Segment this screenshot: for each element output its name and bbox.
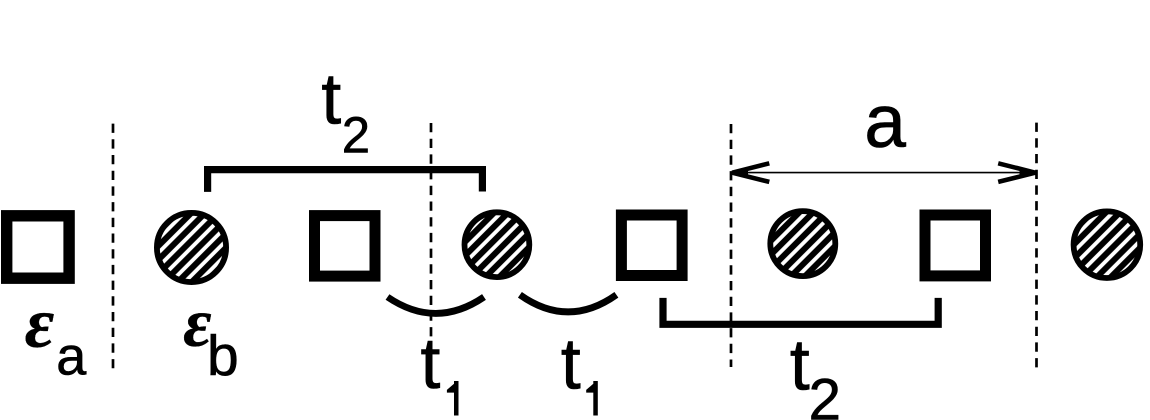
svg-text:a: a: [864, 79, 906, 163]
dashed cell boundary line 1: [112, 124, 115, 369]
a-site square 1: [7, 216, 69, 278]
b-site circle 3: [770, 211, 835, 276]
dashed cell boundary line 2: [430, 123, 433, 340]
t2 bracket top: [208, 170, 483, 192]
a-site square 2: [315, 216, 376, 277]
svg-text:2: 2: [809, 368, 842, 420]
svg-text:t: t: [321, 60, 341, 140]
a-site square 4: [925, 215, 986, 276]
svg-text:2: 2: [342, 106, 370, 163]
t1 hopping arc 1: [388, 297, 485, 313]
arrowhead left: [732, 163, 769, 182]
svg-text:ε: ε: [25, 283, 55, 363]
t1 hopping arc 2: [520, 295, 617, 312]
svg-text:t: t: [420, 324, 440, 404]
b-site circle 1: [157, 213, 226, 282]
label t1 first: subscript 1 (custom helvetica-style): [447, 381, 459, 416]
svg-text:a: a: [56, 327, 87, 387]
lattice constant arrow line: [733, 172, 1035, 174]
b-site circle 2: [465, 212, 530, 277]
label t1 second: subscript 1 (custom helvetica-style): [586, 381, 598, 416]
svg-text:t: t: [790, 326, 810, 406]
dashed cell boundary line 3: [730, 124, 733, 367]
arrowhead right: [998, 163, 1035, 182]
t2 bracket bottom: [663, 298, 938, 324]
svg-text:b: b: [207, 324, 239, 388]
b-site circle 4: [1074, 211, 1141, 278]
a-site square 3: [621, 215, 682, 276]
dashed cell boundary line 4: [1035, 123, 1038, 369]
svg-text:t: t: [561, 325, 581, 405]
